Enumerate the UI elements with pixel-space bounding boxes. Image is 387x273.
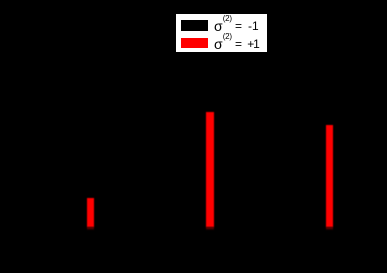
red bar 3 [326,125,333,227]
red bar 3 dark base [326,227,333,230]
legend swatch red (sigma2 = +1) [181,38,209,49]
legend label row 2: sigma^(2) = +1 [214,37,223,51]
legend label row 1: sigma^(2) = -1 [214,19,223,33]
red bar 2 dark base [206,227,213,230]
red bar 2 [206,112,213,227]
legend swatch black (sigma2 = -1) [181,20,209,31]
red bar 1 [87,198,94,228]
legend box [176,14,267,52]
red bar 1 dark base [87,227,94,230]
